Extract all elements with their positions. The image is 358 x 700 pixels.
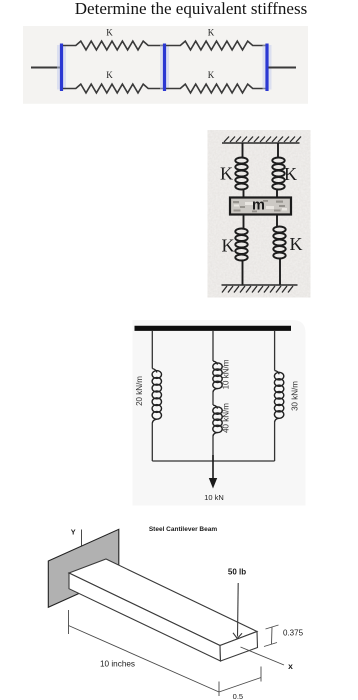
- svg-text:Determine the equivalent stiff: Determine the equivalent stiffness: [75, 0, 307, 18]
- ceiling hatching: [224, 137, 301, 143]
- spring K lower-left: rod to floor: [242, 260, 244, 285]
- spring K upper-right: coil: [272, 158, 284, 190]
- dimension 0.5 line: [219, 667, 261, 693]
- svg-text:K: K: [220, 164, 233, 184]
- dimension 10 inches extension + line: [69, 610, 220, 696]
- svg-text:Steel Cantilever Beam: Steel Cantilever Beam: [149, 526, 218, 533]
- spring 10 kN/m coil: [213, 361, 222, 392]
- spring K lower-right: coil: [273, 227, 285, 259]
- wire bottom connector: [152, 460, 274, 462]
- rigid top bar: [135, 326, 292, 331]
- wire middle between springs: [212, 392, 214, 405]
- wire middle lower: [212, 436, 214, 461]
- spring K lower-right: rod from mass: [276, 214, 278, 226]
- svg-text:K: K: [208, 28, 215, 38]
- spring 40 kN/m coil: [213, 405, 222, 436]
- svg-text:0.375: 0.375: [283, 629, 304, 638]
- spring K (top-right): [166, 41, 266, 50]
- spring K upper-left: coil: [235, 158, 247, 190]
- force arrow 10 kN: [212, 455, 214, 480]
- wire right lead: [269, 67, 297, 69]
- svg-text:10 inches: 10 inches: [100, 660, 135, 669]
- node bar B2 (blue, middle): [160, 45, 169, 90]
- Y axis line: [81, 530, 83, 547]
- floor line: [222, 284, 298, 286]
- spring K (bottom-left): [63, 84, 163, 93]
- svg-text:m: m: [252, 197, 265, 213]
- spring K lower-left: coil: [235, 229, 247, 261]
- svg-text:30 kN/m: 30 kN/m: [291, 381, 300, 411]
- beam front face: [69, 573, 221, 661]
- dimension 0.375 ticks: [264, 625, 279, 647]
- floor hatching: [222, 286, 293, 293]
- diagram 3 background panel: [133, 320, 306, 506]
- ceiling line: [222, 142, 300, 144]
- diagram 1 background panel: [23, 26, 308, 104]
- svg-text:20 kN/m: 20 kN/m: [135, 376, 144, 406]
- svg-text:40 kN/m: 40 kN/m: [222, 403, 231, 433]
- diagram 2 background panel: [208, 130, 311, 298]
- svg-text:0.5: 0.5: [233, 692, 243, 700]
- svg-text:x: x: [288, 661, 293, 671]
- svg-text:K: K: [106, 70, 113, 80]
- spring K upper-left: rod: [242, 143, 244, 157]
- wire middle hanger: [212, 331, 214, 361]
- node bar B1 (blue): [57, 45, 66, 90]
- wire left hanger: [151, 331, 153, 369]
- svg-text:K: K: [208, 70, 215, 80]
- beam end face: [220, 632, 258, 662]
- node bar B3 (blue, right): [263, 45, 272, 90]
- svg-text:Y: Y: [71, 528, 76, 537]
- svg-text:K: K: [290, 234, 303, 254]
- wire right hanger: [274, 331, 276, 371]
- spring K (bottom-right): [166, 84, 266, 93]
- spring 20 kN/m coil: [152, 369, 161, 424]
- svg-text:50 lb: 50 lb: [228, 568, 246, 577]
- spring 30 kN/m coil: [274, 371, 283, 422]
- X axis line: [241, 647, 285, 665]
- spring K upper-left: rod to mass: [243, 189, 245, 199]
- mass m box: [230, 198, 291, 215]
- spring K upper-right: rod to mass: [276, 189, 278, 199]
- wire left lower: [151, 423, 153, 461]
- svg-text:K: K: [106, 28, 113, 38]
- svg-text:K: K: [222, 236, 235, 256]
- wall (fixed support): [48, 529, 119, 607]
- svg-text:10 kN/m: 10 kN/m: [222, 359, 231, 389]
- spring K lower-right: rod to floor: [279, 258, 281, 285]
- wire right lower: [274, 422, 276, 462]
- beam top face: [69, 559, 257, 646]
- spring K lower-left: rod from mass: [243, 214, 245, 228]
- svg-text:10 kN: 10 kN: [204, 493, 224, 502]
- spring K (top-left): [63, 41, 163, 50]
- spring K upper-right: rod: [277, 143, 279, 157]
- wire left lead: [31, 67, 60, 69]
- svg-text:K: K: [284, 164, 297, 184]
- force arrow 50 lb: [237, 583, 240, 637]
